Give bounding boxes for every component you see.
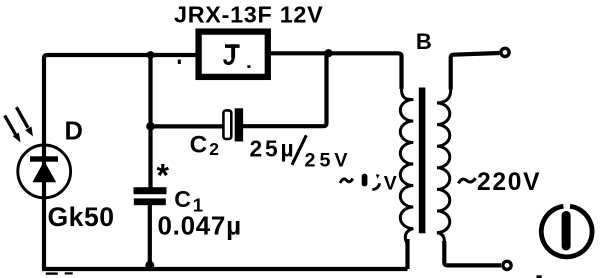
svg-text:220V: 220V [477, 169, 541, 196]
svg-text:JRX-13F 12V: JRX-13F 12V [174, 1, 323, 27]
svg-text:B: B [416, 29, 432, 54]
svg-text:V: V [384, 173, 397, 195]
svg-text:*: * [157, 158, 170, 194]
svg-text:Gk50: Gk50 [48, 202, 115, 232]
svg-text:25V: 25V [305, 149, 352, 171]
svg-text:2: 2 [209, 139, 219, 159]
svg-text:C: C [174, 186, 191, 212]
svg-text:D: D [65, 118, 83, 146]
svg-text:25µ: 25µ [250, 136, 297, 162]
svg-text:0.047µ: 0.047µ [158, 210, 242, 240]
svg-text:C: C [190, 131, 208, 158]
